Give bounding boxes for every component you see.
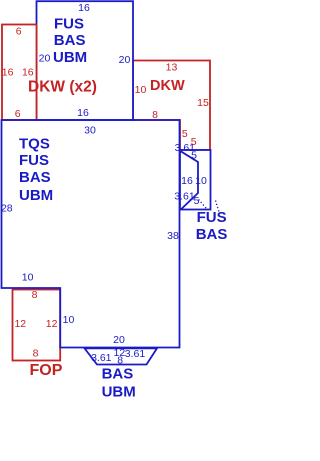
svg-text:6: 6	[16, 26, 22, 38]
room B (DKW x2) outline	[2, 25, 37, 121]
room A (FUS BAS UBM top) outline	[37, 1, 134, 120]
dashed diagonal right of E	[216, 201, 220, 213]
svg-text:3.61: 3.61	[125, 348, 146, 360]
svg-text:FOP: FOP	[30, 362, 63, 379]
svg-text:10: 10	[22, 271, 34, 283]
svg-text:8: 8	[117, 354, 123, 366]
svg-text:12: 12	[46, 318, 58, 330]
svg-text:20: 20	[113, 334, 125, 346]
room G (BAS UBM bottom bay) outline	[85, 348, 158, 364]
room D (TQS FUS BAS UBM big) outline	[2, 120, 180, 348]
room C (DKW right) L-shaped outline	[133, 61, 210, 151]
svg-text:15: 15	[197, 97, 209, 109]
svg-text:16: 16	[77, 107, 89, 119]
svg-text:3.61: 3.61	[91, 352, 112, 364]
svg-text:DKW (x2): DKW (x2)	[28, 79, 97, 96]
svg-text:6: 6	[15, 108, 21, 120]
svg-text:BAS: BAS	[102, 366, 134, 383]
svg-text:10: 10	[63, 314, 75, 326]
svg-text:BAS: BAS	[54, 32, 86, 49]
svg-text:8: 8	[152, 109, 158, 121]
svg-text:16: 16	[2, 67, 14, 79]
svg-text:BAS: BAS	[19, 169, 51, 186]
svg-text:10: 10	[195, 175, 207, 187]
svg-text:TQS: TQS	[19, 135, 50, 152]
svg-text:3.61: 3.61	[174, 191, 195, 203]
svg-text:UBM: UBM	[102, 383, 136, 400]
svg-text:BAS: BAS	[196, 226, 228, 243]
svg-text:38: 38	[167, 230, 179, 242]
svg-text:20: 20	[39, 53, 51, 65]
svg-text:UBM: UBM	[53, 49, 87, 66]
svg-text:20: 20	[119, 54, 131, 66]
svg-text:FUS: FUS	[197, 209, 227, 226]
svg-text:5: 5	[194, 195, 200, 207]
svg-text:DKW: DKW	[150, 78, 185, 94]
svg-text:FUS: FUS	[54, 16, 84, 33]
svg-text:16: 16	[181, 175, 193, 187]
svg-text:10: 10	[135, 84, 147, 96]
svg-text:UBM: UBM	[19, 187, 53, 204]
svg-text:FUS: FUS	[19, 152, 49, 169]
svg-text:5: 5	[191, 150, 197, 162]
svg-text:8: 8	[32, 289, 38, 301]
dashed diagonal inside E	[199, 200, 207, 209]
svg-text:8: 8	[33, 347, 39, 359]
svg-text:16: 16	[78, 2, 90, 14]
svg-text:28: 28	[1, 203, 13, 215]
svg-text:30: 30	[84, 125, 96, 137]
svg-text:13: 13	[166, 62, 178, 74]
room FOP outline	[13, 290, 61, 361]
svg-text:16: 16	[22, 67, 34, 79]
inner shape F (stairs) polyline	[180, 151, 198, 210]
room E (FUS BAS small right) outline	[180, 150, 211, 210]
svg-text:5: 5	[182, 128, 188, 140]
svg-text:12: 12	[14, 318, 26, 330]
